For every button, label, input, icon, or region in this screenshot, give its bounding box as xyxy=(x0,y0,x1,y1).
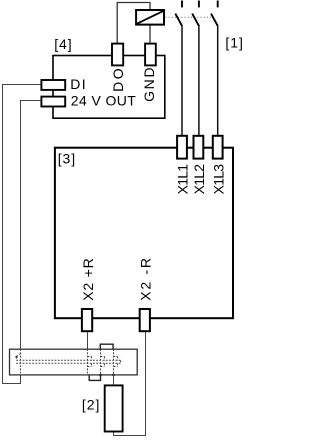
svg-text:X1L3: X1L3 xyxy=(211,164,227,195)
svg-text:[3]: [3] xyxy=(58,150,75,166)
svg-text:DO: DO xyxy=(110,68,126,92)
svg-text:X1L1: X1L1 xyxy=(175,164,191,195)
svg-text:X1L2: X1L2 xyxy=(191,164,207,195)
svg-text:DI: DI xyxy=(70,76,85,92)
svg-text:[4]: [4] xyxy=(54,36,71,52)
svg-text:24 V OUT: 24 V OUT xyxy=(71,93,136,109)
svg-text:X2 +R: X2 +R xyxy=(80,258,96,301)
svg-text:[1]: [1] xyxy=(225,34,242,50)
svg-text:[2]: [2] xyxy=(82,396,100,412)
svg-text:GND: GND xyxy=(141,67,157,102)
svg-text:X2 -R: X2 -R xyxy=(137,258,153,301)
